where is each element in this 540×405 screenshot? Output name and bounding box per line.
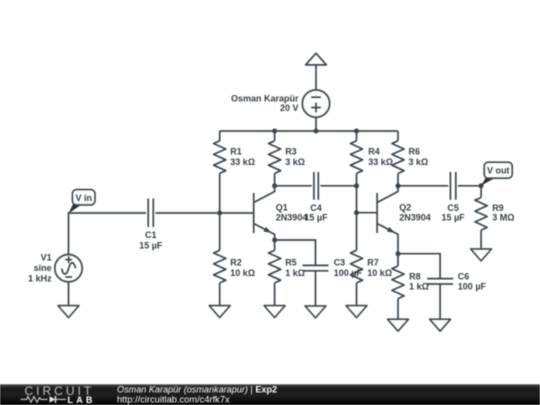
resistor R3 — [269, 131, 281, 186]
flag V in — [68, 190, 95, 214]
capacitor C5 — [450, 172, 455, 200]
wire C3 to ground — [315, 271, 317, 306]
svg-text:Q1: Q1 — [276, 202, 288, 212]
node C4/R4 — [354, 183, 359, 188]
capacitor C1 — [148, 199, 153, 228]
wire top rail — [220, 130, 398, 132]
svg-text:C1: C1 — [145, 230, 157, 240]
svg-text:R5: R5 — [285, 258, 297, 268]
resistor R1 — [214, 131, 226, 213]
svg-text:3 kΩ: 3 kΩ — [285, 157, 305, 167]
svg-text:33 kΩ: 33 kΩ — [230, 157, 255, 167]
node Vout — [479, 183, 484, 188]
svg-text:C6: C6 — [458, 271, 470, 281]
label Q2 2N3904 — [399, 202, 431, 222]
node Q1 collector — [272, 183, 277, 188]
wire arrow to source — [315, 65, 317, 90]
logo text LAB — [68, 395, 96, 405]
label R2 10k — [230, 258, 255, 278]
svg-text:2N3904: 2N3904 — [399, 213, 431, 223]
node Q2 collector — [396, 183, 401, 188]
ground under V1 — [58, 306, 79, 318]
svg-text:C4: C4 — [310, 203, 322, 213]
node Q1 emitter — [272, 238, 277, 243]
ground under C6 — [430, 319, 451, 331]
label R1 33k — [230, 146, 255, 167]
label C5 15uF — [441, 203, 465, 223]
svg-text:1 kΩ: 1 kΩ — [285, 268, 305, 278]
svg-text:R3: R3 — [285, 146, 297, 156]
label R8 1k — [409, 271, 429, 291]
svg-text:R2: R2 — [230, 258, 242, 268]
wire Vin corner to C1 — [69, 213, 147, 255]
svg-text:100 µF: 100 µF — [334, 268, 363, 278]
label V2 — [231, 93, 299, 113]
footer bar — [0, 384, 540, 405]
label R3 3k — [285, 146, 305, 167]
svg-text:10 kΩ: 10 kΩ — [230, 268, 255, 278]
resistor R9 — [475, 186, 487, 249]
svg-text:C5: C5 — [447, 203, 459, 213]
ground under R5 — [264, 306, 285, 318]
resistor R8 — [392, 254, 404, 320]
svg-text:10 kΩ: 10 kΩ — [367, 268, 392, 278]
wire Q2 collector to C5 — [398, 185, 448, 187]
footer line 1 — [117, 385, 277, 395]
svg-text:15 µF: 15 µF — [139, 241, 163, 251]
wire bias to Q2 base — [357, 212, 378, 214]
node Q2 base bias — [354, 210, 359, 215]
ground under R8 — [388, 319, 409, 331]
resistor R6 — [392, 131, 404, 186]
wire C4 to R4 column — [320, 185, 356, 187]
svg-text:V out: V out — [487, 166, 510, 176]
power flag V+ arrow — [306, 53, 327, 65]
flag V out — [481, 162, 512, 186]
svg-text:1 kHz: 1 kHz — [28, 273, 52, 283]
label C6 100uF — [458, 271, 487, 291]
svg-text:15 µF: 15 µF — [441, 213, 465, 223]
svg-text:3 kΩ: 3 kΩ — [409, 157, 429, 167]
label R9 3M — [492, 203, 514, 223]
svg-text:R1: R1 — [230, 146, 242, 156]
capacitor C3 — [303, 265, 329, 270]
node rail-R3 — [272, 129, 277, 134]
label C4 15uF — [304, 203, 328, 223]
svg-text:V1: V1 — [41, 253, 52, 263]
node Q2 emitter — [396, 251, 401, 256]
ground under C3 — [305, 306, 326, 318]
transistor Q2 — [377, 186, 398, 254]
svg-text:sine: sine — [34, 263, 52, 273]
wire emitter to C3 — [275, 240, 316, 265]
source V1 sine — [55, 255, 82, 282]
resistor R7 — [350, 213, 362, 306]
svg-text:Q2: Q2 — [399, 202, 411, 212]
svg-text:15 µF: 15 µF — [304, 213, 328, 223]
wire C1 to base node — [156, 212, 254, 214]
CircuitLab logo text CIRCUIT — [25, 384, 95, 398]
capacitor C6 — [427, 279, 453, 284]
logo resistor-diode glyph — [21, 396, 66, 403]
svg-text:R7: R7 — [367, 258, 379, 268]
svg-text:LAB: LAB — [68, 395, 96, 405]
svg-text:C3: C3 — [334, 258, 346, 268]
svg-text:V in: V in — [75, 193, 92, 203]
transistor Q1 — [254, 186, 275, 240]
label R4 33k — [368, 146, 393, 167]
wire C5 to Vout node — [458, 185, 481, 187]
label C1 15uF — [139, 230, 163, 251]
node rail-R4 — [354, 129, 359, 134]
svg-text:100 µF: 100 µF — [458, 282, 487, 292]
resistor R5 — [269, 240, 281, 306]
svg-text:http://circuitlab.com/c4rfk7x: http://circuitlab.com/c4rfk7x — [117, 394, 230, 404]
ground under R7 — [346, 306, 367, 318]
label R5 1k — [285, 258, 305, 278]
wire Q1 collector to C4 — [275, 185, 312, 187]
ground under R9 — [471, 249, 492, 261]
node rail-V2 — [314, 129, 319, 134]
svg-text:2N3904: 2N3904 — [276, 213, 308, 223]
svg-text:R8: R8 — [409, 271, 421, 281]
resistor R4 — [350, 131, 362, 213]
svg-text:3 MΩ: 3 MΩ — [492, 213, 514, 223]
svg-text:20 V: 20 V — [280, 103, 299, 113]
wire V1 to ground — [68, 282, 70, 306]
label R7 10k — [367, 258, 392, 278]
voltage source V2 (Osman Karapur 20 V) — [302, 90, 329, 117]
label C3 100uF — [334, 258, 363, 278]
wire C6 to ground — [439, 284, 441, 319]
svg-text:33 kΩ: 33 kΩ — [368, 157, 393, 167]
ground under R2 — [209, 306, 230, 318]
wire Q2 emitter to C6 — [398, 254, 440, 279]
svg-text:R6: R6 — [409, 146, 421, 156]
label Q1 2N3904 — [276, 202, 308, 222]
node C1/R1/R2/base — [217, 211, 222, 216]
resistor R2 — [214, 213, 226, 306]
label V1 sine 1kHz — [28, 253, 52, 284]
svg-text:Osman Karapür: Osman Karapür — [231, 93, 299, 103]
label R6 3k — [409, 146, 429, 167]
svg-text:Osman Karapür (osmankarapur) |: Osman Karapür (osmankarapur) | Exp2 — [117, 385, 277, 395]
svg-text:R4: R4 — [368, 146, 380, 156]
wire source to rail — [315, 117, 317, 131]
capacitor C4 — [314, 172, 318, 200]
svg-text:1 kΩ: 1 kΩ — [409, 282, 429, 292]
footer line 2 — [117, 394, 230, 404]
svg-text:R9: R9 — [492, 203, 504, 213]
